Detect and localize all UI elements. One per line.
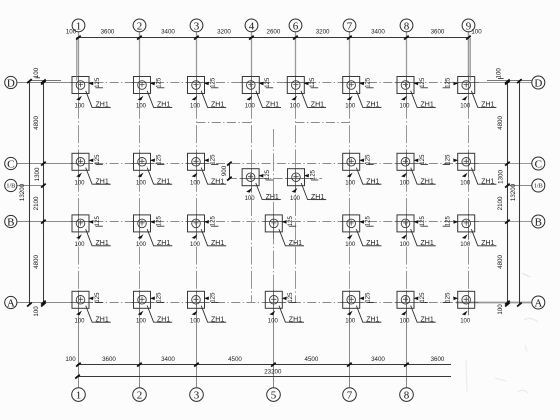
grid line axis 1 center line xyxy=(78,77,80,297)
svg-text:1300: 1300 xyxy=(497,170,504,184)
svg-text:3600: 3600 xyxy=(102,356,116,363)
axis bubble 2 (bottom) xyxy=(133,388,147,402)
svg-text:3400: 3400 xyxy=(161,29,175,36)
svg-text:4800: 4800 xyxy=(33,255,40,269)
svg-text:900: 900 xyxy=(221,165,228,176)
svg-text:3: 3 xyxy=(194,390,200,402)
grid line A right stub xyxy=(456,302,532,304)
dim 100 left top underline xyxy=(35,77,40,79)
svg-text:D: D xyxy=(7,77,15,89)
column ZH1 at 1/B-6 xyxy=(286,178,309,180)
svg-text:2100: 2100 xyxy=(497,196,504,210)
grid line axis 5 center line xyxy=(273,129,275,291)
axis bubble 1 (bottom) xyxy=(72,388,86,402)
axis bubble B (left) xyxy=(5,215,17,227)
svg-text:5: 5 xyxy=(271,390,277,402)
svg-text:2100: 2100 xyxy=(33,196,40,210)
right dimension ticks xyxy=(505,79,510,83)
grid line axis 8 center line xyxy=(406,77,408,297)
grid line B right stub xyxy=(456,221,532,223)
svg-text:1: 1 xyxy=(76,20,82,32)
grid line axis 1 upper stub xyxy=(78,32,80,77)
grid line C left stub xyxy=(17,163,64,165)
grid line axis 4 center line xyxy=(251,77,253,303)
svg-text:23200: 23200 xyxy=(264,369,282,376)
grid line axis 3 lower stub xyxy=(196,296,198,388)
axis bubble 2 (top) xyxy=(133,19,146,32)
grid line axis 8 upper stub xyxy=(406,32,408,77)
axis bubble C (right) xyxy=(532,157,545,170)
column ZH1 at D-2 xyxy=(132,82,155,84)
svg-text:7: 7 xyxy=(347,390,353,402)
axis bubble 3 (bottom) xyxy=(190,388,204,402)
svg-text:1/B: 1/B xyxy=(534,183,543,190)
grid line A left stub xyxy=(17,302,64,304)
axis bubble 9 (top) xyxy=(462,19,475,32)
grid line A center line xyxy=(64,302,456,304)
column ZH1 at D-7 xyxy=(341,82,364,84)
column ZH1 at C-3 xyxy=(186,163,209,165)
corridor center line (3-4) xyxy=(197,122,252,124)
left dimension line xyxy=(43,81,45,305)
svg-text:A: A xyxy=(534,297,542,309)
svg-text:2600: 2600 xyxy=(267,29,281,36)
svg-text:7: 7 xyxy=(347,20,353,32)
grid line axis 3 center line xyxy=(196,77,198,297)
column ZH1 at A-7 xyxy=(341,302,364,304)
axis bubble 1/B (left) xyxy=(5,179,17,191)
offset dimension line 900 xyxy=(229,164,231,179)
svg-text:6: 6 xyxy=(293,20,299,32)
svg-text:1: 1 xyxy=(76,390,82,402)
svg-text:D: D xyxy=(534,77,542,89)
grid line D left stub xyxy=(17,82,64,84)
svg-text:3400: 3400 xyxy=(371,356,385,363)
column ZH1 at D-6 xyxy=(285,82,308,84)
svg-text:100: 100 xyxy=(65,356,76,363)
edge line 100 above D (left) xyxy=(30,80,62,82)
axis bubble 7 (bottom) xyxy=(343,388,357,402)
svg-text:100: 100 xyxy=(33,306,40,317)
bottom overall tick xyxy=(75,375,80,379)
grid line axis 3 upper stub xyxy=(196,32,198,77)
axis bubble 8 (top) xyxy=(400,19,413,32)
svg-text:8: 8 xyxy=(404,390,410,402)
right dimension line xyxy=(507,81,509,305)
grid line 1/B right stub xyxy=(508,185,532,187)
svg-text:B: B xyxy=(7,216,14,228)
column ZH1 at A-1 xyxy=(70,302,93,304)
column ZH1 at C-2 xyxy=(132,163,155,165)
svg-text:4500: 4500 xyxy=(305,356,319,363)
edge line 100 left of axis 1 xyxy=(76,38,78,81)
grid line axis 7 center line xyxy=(349,77,351,297)
grid line axis 2 upper stub xyxy=(139,32,141,77)
svg-text:3600: 3600 xyxy=(431,29,445,36)
svg-text:100: 100 xyxy=(33,67,40,78)
axis bubble A (left) xyxy=(5,296,17,308)
axis bubble 1 (top) xyxy=(72,19,85,32)
grid line axis 8 lower stub xyxy=(406,296,408,388)
svg-text:A: A xyxy=(7,297,15,309)
column ZH1 at D-1 xyxy=(70,82,93,84)
svg-text:3400: 3400 xyxy=(371,29,385,36)
svg-text:13200: 13200 xyxy=(510,183,517,201)
grid line axis 9 upper stub xyxy=(468,32,470,77)
svg-text:C: C xyxy=(7,158,14,170)
axis bubble 1/B (right) xyxy=(532,179,545,192)
axis bubble 8 (bottom) xyxy=(400,388,414,402)
column ZH1 at B-1 xyxy=(70,221,93,223)
axis bubble 4 (top) xyxy=(245,19,258,32)
top dimension line xyxy=(77,37,469,39)
svg-text:3200: 3200 xyxy=(217,29,231,36)
column ZH1 at A-9 xyxy=(456,302,479,304)
svg-text:3200: 3200 xyxy=(316,29,330,36)
top dimension ticks xyxy=(76,36,81,40)
svg-text:3600: 3600 xyxy=(431,356,445,363)
offset dimension ticks xyxy=(227,162,232,166)
column ZH1 at B-2 xyxy=(132,221,155,223)
column ZH1 at 1/B-4 xyxy=(240,178,263,180)
svg-text:13200: 13200 xyxy=(19,183,26,201)
grid line axis 9 center line xyxy=(468,77,470,310)
grid line axis 7 lower stub xyxy=(349,296,351,388)
grid line axis 2 center line xyxy=(139,77,141,297)
faint trace 5 xyxy=(466,360,467,392)
column ZH1 at D-3 xyxy=(186,82,209,84)
svg-text:4500: 4500 xyxy=(228,356,242,363)
column ZH1 at C-8 xyxy=(395,163,418,165)
axis bubble 3 (top) xyxy=(190,19,203,32)
grid line axis 5 lower stub xyxy=(273,291,275,388)
bottom dimension line xyxy=(77,364,451,366)
right overall dimension line xyxy=(519,81,521,305)
column ZH1 at D-4 xyxy=(240,82,263,84)
column ZH1 at A-2 xyxy=(132,302,155,304)
svg-text:4800: 4800 xyxy=(497,116,504,130)
svg-text:3: 3 xyxy=(194,20,200,32)
dim 100 right top underline xyxy=(498,77,504,79)
edge line 100 right of axis 9 xyxy=(469,38,471,81)
bottom dimension ticks xyxy=(76,363,81,367)
axis bubble A (right) xyxy=(532,296,545,309)
column ZH1 at B-8 xyxy=(395,221,418,223)
svg-text:4800: 4800 xyxy=(497,255,504,269)
svg-text:2: 2 xyxy=(137,20,143,32)
column ZH1 at C-7 xyxy=(341,163,364,165)
column ZH1 at A-8 xyxy=(395,302,418,304)
column ZH1 at A-3 xyxy=(186,302,209,304)
faint trace 6 xyxy=(525,345,527,352)
grid line axis 1 lower stub xyxy=(78,296,80,388)
grid line axis 6 upper stub xyxy=(295,32,297,77)
axis bubble C (left) xyxy=(5,157,17,169)
svg-text:4: 4 xyxy=(249,20,255,32)
grid line axis 7 upper stub xyxy=(349,32,351,77)
svg-text:3400: 3400 xyxy=(161,356,175,363)
grid line axis 4 upper stub xyxy=(251,32,253,77)
svg-text:C: C xyxy=(535,158,542,170)
column ZH1 at B-9 xyxy=(456,221,479,223)
faint trace 4 xyxy=(518,390,528,393)
faint trace 1 xyxy=(522,273,530,277)
grid line D right stub xyxy=(456,82,532,84)
svg-text:1300: 1300 xyxy=(34,167,41,181)
grid line 1/B left stub xyxy=(17,185,44,187)
axis bubble D (right) xyxy=(532,76,545,89)
svg-text:8: 8 xyxy=(404,20,410,32)
grid line D center line xyxy=(64,82,456,84)
offset column center line xyxy=(228,178,322,180)
faint trace 2 xyxy=(524,318,538,322)
column ZH1 at C-1 xyxy=(70,163,93,165)
corridor center line (6-7) xyxy=(296,122,350,124)
column ZH1 at C-9 xyxy=(456,163,479,165)
grid line C right stub xyxy=(456,163,532,165)
svg-text:2: 2 xyxy=(137,390,143,402)
grid line axis 2 lower stub xyxy=(139,296,141,388)
svg-text:100: 100 xyxy=(496,68,503,79)
column ZH1 at B-5 xyxy=(263,221,286,223)
column ZH1 at A-5 xyxy=(263,302,286,304)
svg-text:3600: 3600 xyxy=(101,29,115,36)
column ZH1 at D-8 xyxy=(395,82,418,84)
column ZH1 at B-3 xyxy=(186,221,209,223)
grid line axis 6 center line xyxy=(295,77,297,303)
edge line 100 above D (right) xyxy=(487,80,532,82)
column ZH1 at D-9 xyxy=(456,82,479,84)
axis bubble 5 (bottom) xyxy=(267,388,281,402)
axis bubble 7 (top) xyxy=(343,19,356,32)
svg-text:9: 9 xyxy=(466,20,472,32)
svg-text:B: B xyxy=(535,216,542,228)
svg-text:1/B: 1/B xyxy=(6,183,15,190)
svg-text:4800: 4800 xyxy=(33,116,40,130)
left dimension ticks xyxy=(41,79,46,83)
bottom overall dimension line xyxy=(76,376,451,378)
axis bubble 6 (top) xyxy=(289,19,302,32)
grid line B center line xyxy=(64,221,456,223)
axis bubble D (left) xyxy=(5,76,17,88)
svg-text:100: 100 xyxy=(497,304,504,315)
column ZH1 at B-7 xyxy=(341,221,364,223)
axis bubble B (right) xyxy=(532,215,545,228)
faint trace 3 xyxy=(495,378,506,381)
grid line B left stub xyxy=(17,221,64,223)
grid line C center line xyxy=(64,163,456,165)
left overall dimension line xyxy=(29,81,31,305)
